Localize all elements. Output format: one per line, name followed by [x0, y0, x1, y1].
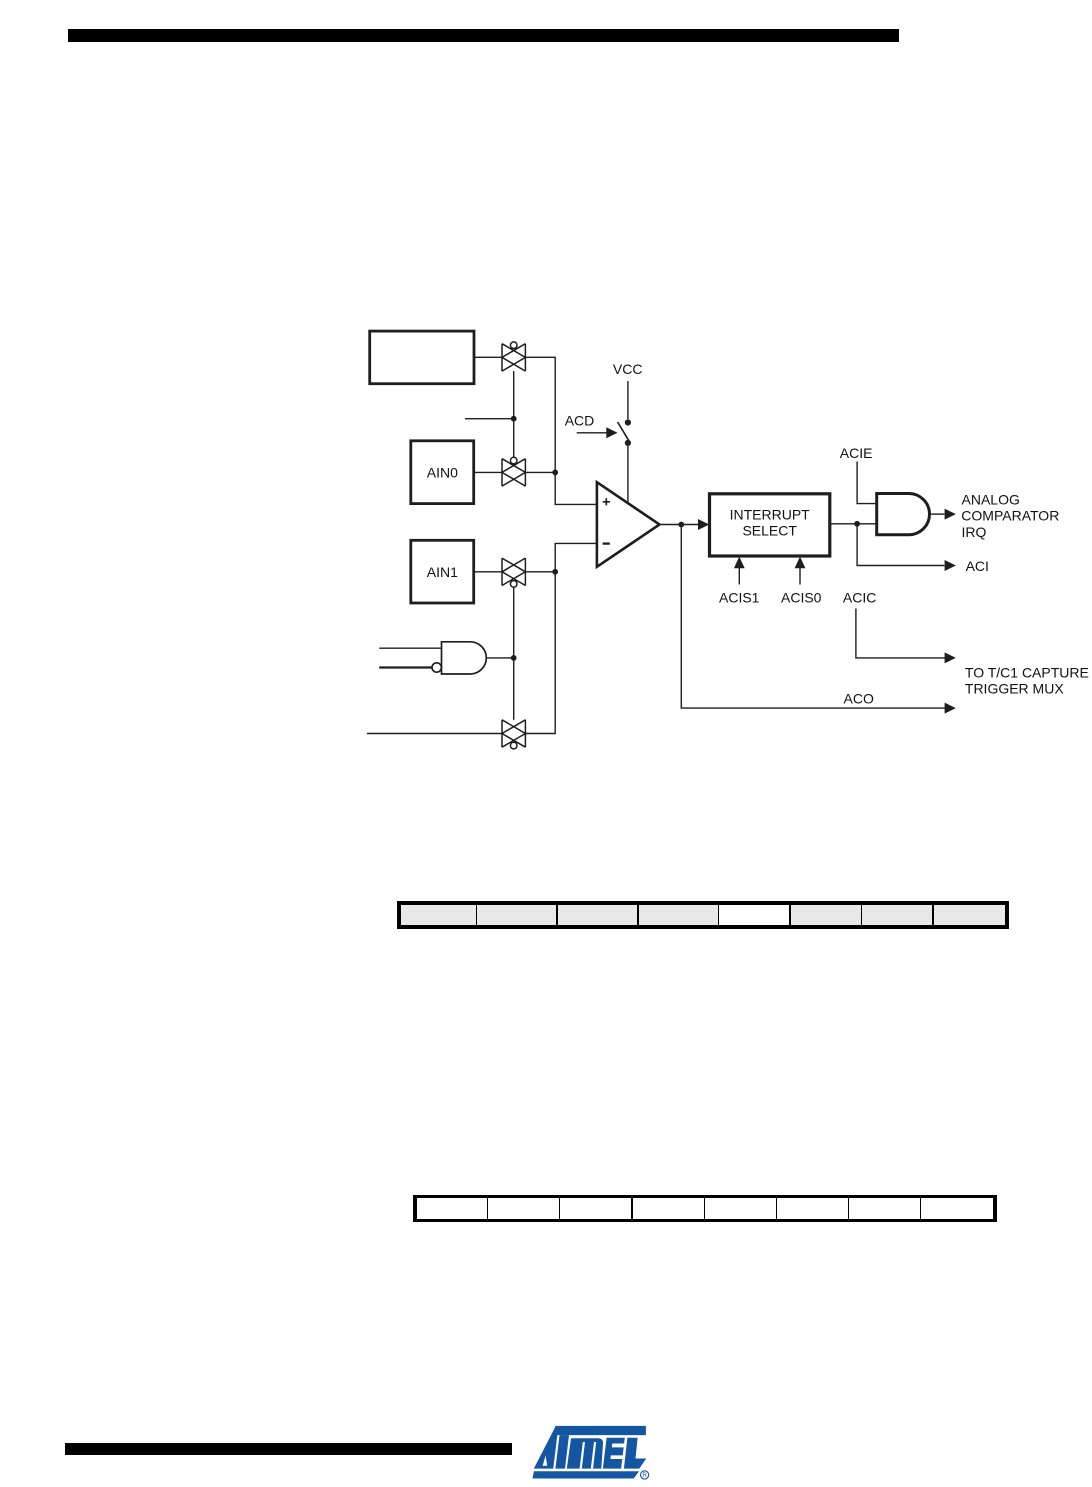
logo registered mark — [641, 1471, 649, 1479]
node NAND output — [511, 655, 517, 661]
arrow analog comparator irq — [945, 509, 956, 520]
wire S1/S2 control link — [513, 371, 515, 459]
analog switch S1 — [502, 342, 525, 371]
svg-text:INTERRUPT: INTERRUPT — [730, 506, 811, 522]
wire ACO branch — [681, 525, 945, 709]
logo M slit 2 — [591, 1442, 596, 1469]
node control stub — [511, 416, 517, 422]
wire S3 control to S4 — [513, 587, 515, 720]
NAND gate U3 — [442, 642, 487, 674]
logo E slit 1 — [612, 1444, 626, 1448]
minus sign — [603, 542, 610, 544]
wire ACIS0 — [799, 568, 801, 585]
analog switch S4 — [502, 720, 525, 749]
logo top bar — [553, 1426, 646, 1435]
svg-text:ACIS0: ACIS0 — [781, 590, 822, 606]
arrow ACIS1 up — [734, 557, 745, 569]
wire -bus from comparator to bottom switch — [525, 543, 597, 733]
bottom rule bar — [65, 1443, 512, 1455]
logo letter L — [624, 1438, 646, 1469]
node comparator output — [678, 522, 684, 528]
svg-text:ANALOG: ANALOG — [962, 491, 1020, 507]
svg-text:TRIGGER MUX: TRIGGER MUX — [965, 681, 1064, 697]
arrow ACIC — [945, 652, 956, 663]
svg-text:R: R — [642, 1472, 647, 1479]
svg-text:ACIC: ACIC — [843, 590, 876, 606]
AIN1 box — [411, 540, 474, 603]
wire NAND input B — [379, 666, 432, 668]
top rule bar — [68, 29, 899, 42]
svg-text:AIN1: AIN1 — [427, 564, 458, 580]
arrow into interrupt select — [698, 519, 709, 530]
labels — [427, 361, 1089, 706]
analog switch S3 — [502, 558, 525, 587]
interrupt select box — [710, 494, 830, 556]
wire ACIC — [856, 609, 946, 658]
wire S2 output to +bus — [525, 471, 555, 473]
wire comparator output — [660, 524, 699, 526]
AND gate U2 — [877, 494, 930, 535]
wire switch to comparator top — [627, 446, 629, 503]
arrowheads — [606, 427, 956, 713]
svg-text:AIN0: AIN0 — [427, 464, 458, 480]
arrow ACIS0 up — [795, 557, 806, 569]
wire NAND input A — [379, 647, 441, 649]
register table ACSR empty (white cells) — [413, 1195, 997, 1223]
svg-text:ACO: ACO — [844, 690, 874, 706]
svg-text:VCC: VCC — [613, 361, 643, 377]
logo letter M — [567, 1438, 603, 1468]
arrow ACD — [606, 427, 617, 438]
logo E slit 2 — [610, 1455, 624, 1459]
wire ACD arrow shaft — [577, 432, 607, 434]
node switch bottom — [625, 440, 631, 446]
svg-text:SELECT: SELECT — [742, 522, 797, 538]
arrow ACI — [945, 560, 956, 571]
wire control stub — [465, 418, 514, 420]
svg-text:TO T/C1 CAPTURE: TO T/C1 CAPTURE — [965, 665, 1089, 681]
wire ACI branch — [857, 524, 944, 566]
wire VCC drop — [627, 381, 629, 419]
plus sign — [603, 498, 610, 505]
node S3/-bus — [552, 569, 558, 575]
logo A notch — [543, 1456, 548, 1466]
Atmel logo — [528, 1420, 656, 1486]
svg-text:ACIE: ACIE — [840, 445, 873, 461]
wire AIN0 to switch S2 — [474, 471, 502, 473]
logo letter A — [534, 1426, 558, 1469]
svg-text:ACD: ACD — [565, 412, 595, 428]
node interrupt/AND — [854, 521, 860, 527]
svg-text:ACIS1: ACIS1 — [719, 590, 760, 606]
wire ACIE — [857, 462, 877, 504]
wire interrupt-select to AND — [830, 523, 877, 525]
junction dots — [511, 416, 860, 661]
svg-text:COMPARATOR: COMPARATOR — [961, 508, 1059, 524]
logo bottom bar — [533, 1471, 640, 1478]
wire ACIS1 — [738, 568, 740, 585]
wire AND output — [930, 513, 945, 515]
logo M slit 1 — [580, 1442, 585, 1469]
wire AIN1 to switch S3 — [474, 571, 502, 573]
analog switch S2 — [502, 457, 525, 486]
wire NAND output — [486, 657, 513, 659]
node S2/+bus — [552, 470, 558, 476]
register table ACSR (gray cells) — [397, 901, 1009, 929]
wire S1 output to +bus corner — [525, 357, 597, 504]
AIN0 box — [411, 441, 474, 504]
wire bandgap to switch S1 — [474, 356, 502, 358]
NAND bubble — [432, 663, 441, 672]
node switch top — [625, 419, 631, 425]
bandgap reference box (empty) — [370, 331, 474, 384]
logo letter E — [603, 1438, 625, 1469]
logo letter T — [555, 1435, 569, 1469]
wire S3 output to -bus — [525, 571, 555, 573]
wire bottom bus into S4 — [367, 733, 502, 735]
switch blade ACD — [618, 422, 630, 442]
arrow ACO — [945, 703, 956, 714]
svg-text:ACI: ACI — [966, 558, 989, 574]
svg-text:IRQ: IRQ — [962, 524, 987, 540]
comparator triangle — [597, 482, 660, 567]
